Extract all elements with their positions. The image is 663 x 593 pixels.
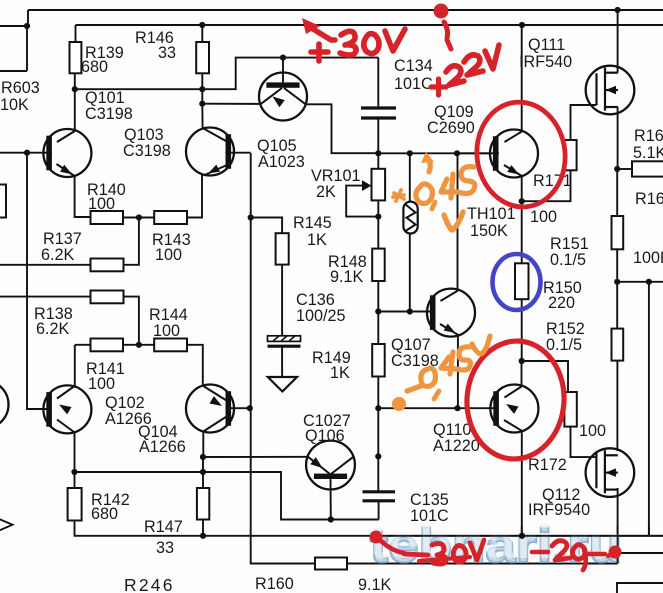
annotation red circle around Q109	[471, 97, 571, 212]
label Q110	[433, 421, 471, 439]
wire R142 bottom lead	[75, 521, 663, 536]
node junction Q107 emitter bottom	[454, 405, 460, 411]
wire R137 left lead	[0, 264, 91, 266]
wire second rail y=25	[76, 24, 663, 26]
node junction Q105 base	[280, 55, 286, 61]
resistor R142 680	[68, 488, 82, 521]
label TH101 value 150K	[470, 222, 508, 240]
wire bottom-right box partial	[617, 583, 663, 593]
wire C135 top stub	[377, 456, 379, 491]
annotation blue circle around R150	[493, 254, 541, 310]
label Q104	[138, 423, 178, 441]
node junction VR101 top	[375, 150, 381, 156]
svg-text:R246: R246	[124, 575, 175, 593]
svg-text:220: 220	[548, 294, 575, 312]
label R144 value 100	[153, 322, 180, 340]
label R144	[149, 306, 188, 324]
node junction Q105 emitter	[199, 101, 205, 107]
wire C134 bottom stub	[377, 119, 379, 153]
transistor Q102 A1266	[43, 385, 91, 433]
wire mid resistor bottom to Q112	[616, 361, 618, 451]
transistor Q104 A1266	[186, 385, 234, 433]
svg-text:100K: 100K	[633, 249, 663, 267]
annotation orange 0.45	[416, 167, 475, 209]
node junction R162	[614, 166, 620, 172]
label R160	[255, 575, 294, 593]
node junction output rail top	[519, 22, 525, 28]
resistor R173 100	[564, 392, 576, 427]
node junction R149 bottom	[375, 405, 381, 411]
label R162	[634, 127, 663, 145]
wire R139 top lead	[75, 25, 77, 42]
label R142 value 680	[91, 505, 118, 523]
wire x=251 long vertical	[251, 153, 315, 564]
capacitor C136 100/25 (electrolytic)	[268, 336, 301, 346]
wire Q104 collector down	[202, 432, 204, 457]
wire R147 leads	[202, 472, 204, 488]
node junction R603	[24, 23, 30, 29]
svg-text:A1220: A1220	[433, 437, 480, 455]
node junction R139 bottom	[72, 86, 78, 92]
svg-text:1K: 1K	[307, 231, 327, 249]
resistor R144 100	[154, 339, 187, 352]
wire R161 bottom lead	[616, 249, 618, 281]
wire VR101 bottom lead	[377, 200, 379, 248]
svg-text:1K: 1K	[330, 364, 350, 382]
svg-text:IRF540: IRF540	[519, 53, 572, 71]
node junction R146 top	[199, 22, 205, 28]
label Q110 type A1220	[433, 437, 480, 455]
svg-text:R147: R147	[144, 518, 183, 536]
wire Q109 base lead	[457, 152, 490, 154]
label R161	[635, 190, 663, 208]
resistor R140 100	[91, 211, 124, 224]
node junction x649 top	[646, 279, 652, 285]
label R141 value 100	[88, 375, 115, 393]
annotation orange star	[393, 190, 404, 201]
label R137 value 6.2K	[41, 246, 75, 264]
node junction VR101 wiper return	[375, 214, 381, 220]
node junction R147 top	[200, 469, 206, 475]
node junction TH101 top	[407, 150, 413, 156]
annotation red -29 struck	[532, 541, 622, 570]
ground symbol	[268, 377, 297, 392]
node junction R148/R149	[375, 308, 381, 314]
resistor R171 100	[564, 140, 576, 170]
label TH101	[467, 205, 516, 223]
annotation +22V	[431, 45, 499, 95]
wire R140-R143 node	[123, 217, 154, 219]
label R161 value 100K	[633, 249, 663, 267]
label Q101 type C3198	[85, 105, 133, 123]
label R151 value 0.1/5	[550, 251, 586, 269]
wire Q102 emitter up	[74, 345, 76, 386]
wire C135 bottom stub	[378, 501, 380, 520]
resistor R137 6.2K	[91, 259, 124, 272]
node junction Q102 collector/R142	[71, 469, 77, 475]
label Q112	[542, 486, 580, 504]
svg-text:R171: R171	[533, 172, 572, 190]
svg-text:C134: C134	[394, 57, 433, 75]
wire R173 top lead	[522, 361, 568, 392]
annotation red -30V struck	[370, 531, 485, 565]
label R171	[533, 172, 572, 190]
resistor (right rail lower)	[612, 329, 624, 361]
svg-text:101C: 101C	[394, 75, 433, 93]
resistor R146 33	[196, 42, 209, 73]
wire R145 top lead	[251, 218, 282, 234]
wire Q107 emitter down	[457, 335, 459, 409]
svg-text:C2690: C2690	[427, 119, 475, 137]
partial triangle (op-amp tip) at left edge	[0, 519, 13, 532]
label R148	[328, 253, 367, 271]
transistor Q106 C1027	[306, 441, 355, 520]
wire R148 bottom lead	[377, 281, 379, 312]
wire R171 gate lead	[571, 105, 597, 140]
label Q106	[305, 427, 345, 445]
label R143 value 100	[155, 246, 182, 264]
mosfet Q112 IRF9540	[586, 448, 635, 497]
potentiometer VR101 2K	[362, 169, 385, 201]
label Q104 type A1266	[139, 438, 186, 456]
wire R141-R144 node	[123, 344, 154, 346]
resistor R143 100	[154, 211, 187, 224]
label R151	[550, 235, 589, 253]
wire Q112 source down	[617, 488, 619, 564]
svg-text:R145: R145	[293, 214, 332, 232]
wire R161 top lead	[616, 169, 618, 216]
node junction input	[24, 150, 30, 156]
wire Q110 emitter up	[521, 361, 523, 387]
wire y=311 Q107 base	[378, 311, 435, 313]
resistor (unlabeled, cut at left edge)	[0, 185, 6, 218]
label R146	[135, 29, 174, 47]
node junction x251/R145	[248, 214, 254, 220]
node junction Q107 collector top	[454, 150, 460, 156]
svg-text:150K: 150K	[470, 222, 508, 240]
label Q101	[85, 89, 125, 107]
wire Q102 collector down	[74, 432, 76, 472]
wire Q107 collector up	[457, 153, 459, 290]
label R138	[34, 305, 73, 323]
resistor R162 5.1K (cut at right edge)	[632, 161, 663, 176]
wire Q105 collector lead	[306, 104, 379, 153]
svg-text:R161: R161	[635, 190, 663, 208]
annotation orange -0.45V	[392, 336, 490, 411]
wire Q101 emitter lead	[75, 176, 91, 217]
svg-text:100: 100	[530, 208, 557, 226]
resistor R160 9.1K	[315, 558, 347, 570]
wire R139 bottom lead	[74, 73, 76, 90]
wire R138 left lead	[0, 296, 91, 298]
label Q111	[528, 36, 565, 54]
svg-text:A1023: A1023	[258, 153, 305, 171]
annotation red arrow	[302, 18, 335, 40]
svg-text:100: 100	[153, 322, 180, 340]
wire Q106 emitter feed	[202, 457, 204, 472]
node junction Q104 base	[247, 405, 253, 411]
label R141	[86, 360, 125, 378]
wire Q110 collector down	[521, 431, 523, 536]
svg-text:TH101: TH101	[467, 205, 516, 223]
wire R171 bottom lead	[522, 170, 571, 201]
resistor R138 6.2K	[91, 291, 124, 304]
annotation +30V	[311, 29, 405, 61]
svg-text:0.1/5: 0.1/5	[546, 336, 582, 354]
label R143	[152, 231, 191, 249]
svg-text:A1266: A1266	[139, 438, 186, 456]
svg-text:6.2K: 6.2K	[36, 320, 70, 338]
resistor R161 100K	[612, 216, 624, 249]
node junction Q106 emitter bottom	[328, 516, 334, 522]
svg-text:6.2K: 6.2K	[41, 246, 75, 264]
wire Q105 emitter lead	[202, 103, 260, 105]
wire R147 bottom stub	[202, 520, 204, 536]
wire R150 top lead	[521, 201, 523, 263]
label R140	[87, 181, 126, 199]
label R172	[528, 456, 567, 474]
wire top +30V rail	[28, 9, 663, 11]
svg-text:C3198: C3198	[85, 105, 133, 123]
label R149	[312, 349, 351, 367]
wire R141 left lead	[75, 344, 91, 346]
wire R145 bottom lead	[281, 265, 283, 337]
capacitor C134 101C	[361, 108, 396, 118]
mosfet Q111 IRF540	[586, 66, 635, 115]
wire Q101 collector	[57, 89, 75, 142]
wire mid resistor top lead	[616, 282, 618, 329]
wire R138 right lead	[124, 297, 139, 345]
label C134 value 101C	[394, 75, 433, 93]
label R145	[293, 214, 332, 232]
node junction R147 bottom	[200, 533, 206, 539]
transistor Q110 A1220	[490, 385, 538, 433]
label R160 value 9.1K	[358, 576, 392, 593]
wire C136 ground stub	[281, 347, 283, 378]
svg-text:680: 680	[91, 505, 118, 523]
wire TH101 bottom lead	[409, 234, 411, 312]
wire R146 bottom lead	[201, 73, 203, 104]
transistor Q103 C3198	[186, 128, 234, 176]
node junction TH101 bottom	[407, 308, 413, 314]
label R147 value 33	[156, 539, 174, 557]
label R152	[546, 320, 585, 338]
annotation orange arrow	[421, 152, 434, 172]
resistor R150 220	[515, 263, 529, 299]
wire Q109 emitter down	[521, 176, 523, 201]
wire VR101 top lead	[377, 153, 379, 169]
wire input rail y=153 left	[0, 152, 52, 154]
svg-text:R160: R160	[255, 575, 294, 593]
wire y=153 bias rail	[378, 152, 499, 154]
label R148 value 9.1K	[330, 268, 364, 286]
svg-text:100/25: 100/25	[296, 307, 346, 325]
wire C134 top stub	[377, 58, 379, 107]
svg-text:100: 100	[88, 375, 115, 393]
transistor Q101 C3198	[43, 129, 91, 177]
label R152 value 0.1/5	[546, 336, 582, 354]
label Q107	[391, 336, 431, 354]
label Q111 type IRF540	[519, 53, 572, 71]
wire y=553 stub right	[618, 552, 663, 554]
label Q105	[257, 137, 297, 155]
svg-text:C3198: C3198	[123, 142, 171, 160]
node junction R141/R144	[136, 342, 142, 348]
wire Q103 base lead	[225, 152, 250, 154]
wire Q111 source down	[617, 107, 619, 169]
label R138 value 6.2K	[36, 320, 70, 338]
wire TH101 top lead	[409, 153, 411, 201]
label R171 value 100	[530, 208, 557, 226]
svg-text:R603: R603	[1, 79, 40, 97]
svg-text:100: 100	[155, 246, 182, 264]
label R603 value 10K	[0, 96, 29, 114]
svg-text:Q111: Q111	[528, 36, 565, 54]
capacitor C135 101C	[363, 492, 396, 501]
node junction Q110 collector bottom	[519, 533, 525, 539]
label R140 value 100	[88, 195, 115, 213]
wire Q103 collector feed	[201, 104, 203, 129]
svg-text:680: 680	[81, 58, 108, 76]
resistor R141 100	[91, 339, 124, 352]
svg-text:33: 33	[156, 539, 174, 557]
svg-text:100: 100	[579, 422, 606, 440]
label R149 value 1K	[330, 364, 350, 382]
svg-text:5.1K: 5.1K	[633, 144, 663, 162]
resistor R139 680	[70, 42, 82, 73]
wire R137 right lead	[124, 218, 139, 265]
svg-text:33: 33	[158, 44, 176, 62]
wire y=472 rail	[75, 472, 379, 520]
svg-text:Q106: Q106	[305, 427, 345, 445]
wire R160 right lead	[347, 563, 618, 565]
wire R149 bottom lead	[377, 377, 379, 409]
label C136	[296, 291, 335, 309]
node junction right rail mid	[614, 279, 620, 285]
svg-text:0.1/5: 0.1/5	[550, 251, 586, 269]
wire R150 bottom lead	[521, 299, 523, 361]
label Q107 type C3198	[391, 352, 439, 370]
label C134	[394, 57, 433, 75]
node junction Q106 collector/C135	[375, 453, 381, 459]
node junction Q111 drain top	[615, 7, 621, 13]
label R146 value 33	[158, 44, 176, 62]
watermark tebnari.ru	[370, 515, 622, 572]
wire R173 bottom to Q112 gate	[571, 427, 597, 458]
wire Q104 base lead	[226, 407, 250, 409]
wire Q109 collector up	[521, 25, 523, 132]
wire x=649 vertical	[648, 282, 650, 536]
label Q112 type IRF9540	[528, 501, 590, 519]
wire x=378 down to Q106 collector node	[377, 408, 379, 456]
resistor R145 1K	[276, 233, 289, 264]
annotation red probe dot top	[434, 4, 452, 50]
wire R142 top lead	[74, 472, 76, 488]
wire R603 bottom lead	[0, 70, 27, 72]
label C136 value 100/25	[296, 307, 346, 325]
svg-text:2K: 2K	[316, 183, 336, 201]
label R137	[43, 230, 82, 248]
label Q109	[434, 103, 474, 121]
label R139	[85, 44, 124, 62]
label Q109 type C2690	[427, 119, 475, 137]
label R246	[124, 575, 175, 593]
label Q102	[105, 394, 145, 412]
wire segments over watermark	[370, 526, 663, 564]
annotation red circle around Q110	[463, 338, 568, 462]
label Q103	[124, 126, 164, 144]
node junction R150 bottom	[519, 358, 525, 364]
svg-text:9.1K: 9.1K	[330, 268, 364, 286]
label Q105 type A1023	[258, 153, 305, 171]
wire R144 right lead	[187, 345, 203, 386]
svg-text:9.1K: 9.1K	[358, 576, 392, 593]
transistor Q107 C3198	[427, 289, 475, 337]
wire left vertical x=27	[27, 153, 52, 409]
wire R603 stub vertical	[26, 26, 28, 71]
label R139 value 680	[81, 58, 108, 76]
label Q106 type C1027	[303, 412, 351, 430]
svg-text:100: 100	[88, 195, 115, 213]
label Q103 type C3198	[123, 142, 171, 160]
label Q102 type A1266	[105, 410, 152, 428]
resistor R149 1K	[372, 344, 385, 377]
label R147	[144, 518, 183, 536]
svg-text:R172: R172	[528, 456, 567, 474]
node junction Q109 emitter/R171	[519, 198, 525, 204]
wire VR101 wiper loop	[346, 186, 378, 217]
wire top-left corner down	[27, 10, 29, 26]
wire R143 right lead	[187, 175, 202, 218]
svg-text:R162: R162	[634, 127, 663, 145]
label VR101	[311, 167, 361, 185]
label R145 value 1K	[307, 231, 327, 249]
label R162 value 5.1K	[633, 144, 663, 162]
wire R603 top lead	[0, 25, 27, 27]
wire R149 leads	[377, 312, 379, 345]
label C135 value 101C	[410, 507, 449, 525]
label R603	[1, 79, 40, 97]
svg-text:10K: 10K	[0, 96, 29, 114]
thermistor TH101 150K	[403, 202, 417, 234]
label VR101 value 2K	[316, 183, 336, 201]
annotation orange check	[444, 212, 463, 230]
wire Q111 drain	[617, 10, 619, 73]
wire R162 lead	[617, 168, 632, 170]
node junction R140/R143	[136, 214, 142, 220]
label R172 value 100	[579, 422, 606, 440]
node junction R146 bottom	[199, 86, 205, 92]
label C135	[410, 491, 449, 509]
partial transistor circle at left edge	[0, 381, 9, 429]
transistor Q109 C2690	[490, 130, 538, 178]
wire y=89 Q105 base feed	[75, 58, 379, 90]
label R150 value 220	[548, 294, 575, 312]
wire R146 top lead	[201, 25, 203, 42]
resistor R147 33	[197, 488, 209, 520]
wire y=457 to Q106	[203, 456, 308, 458]
wire y=281 right	[617, 281, 663, 283]
wire y=408 Q110 base rail	[378, 407, 499, 409]
node junction Q104 collector	[200, 454, 206, 460]
resistor R148 9.1K	[372, 249, 385, 281]
transistor Q105 A1023	[259, 58, 307, 121]
label R142	[91, 491, 130, 509]
label R150	[543, 279, 582, 297]
